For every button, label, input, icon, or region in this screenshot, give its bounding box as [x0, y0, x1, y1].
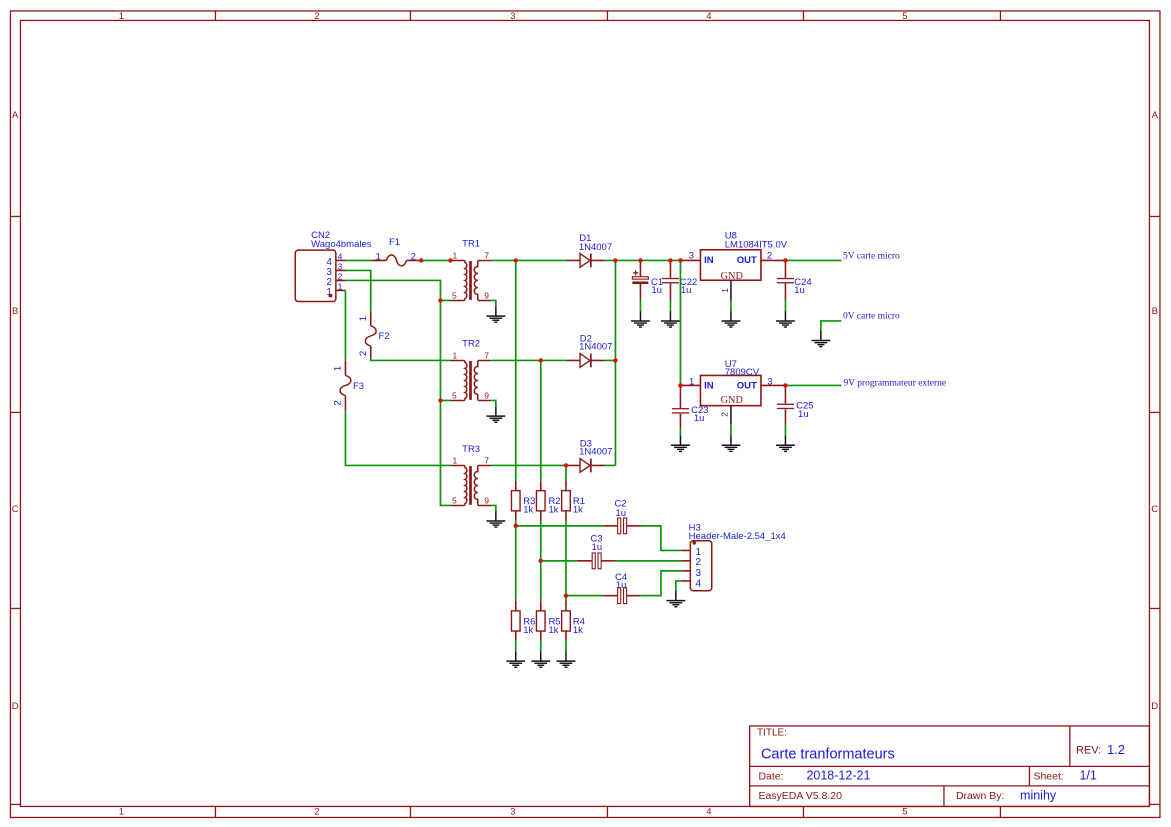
svg-text:2: 2 [719, 412, 729, 417]
svg-text:1: 1 [358, 316, 369, 321]
H3 pin 3 [681, 570, 690, 572]
svg-text:1: 1 [338, 281, 343, 291]
wire CN2.2 down to TR3.5 [345, 280, 450, 505]
svg-text:2: 2 [767, 250, 772, 261]
svg-text:2: 2 [314, 11, 319, 22]
svg-text:Sheet:: Sheet: [1033, 770, 1063, 782]
H3 pin 2 [681, 560, 690, 562]
wire D2 to bus [605, 359, 615, 361]
ground under C24 [776, 311, 795, 327]
svg-text:F1: F1 [389, 237, 400, 248]
wire D3 to bus [605, 464, 615, 466]
svg-text:IN: IN [704, 255, 714, 266]
wire CN2.3 to F2 [345, 270, 370, 311]
ground under R6 [506, 651, 525, 667]
wire TR1.7 to D1 [491, 259, 567, 261]
wire C3 row left [541, 560, 577, 562]
resistor R1 [562, 481, 585, 521]
CN2 pin 4 [336, 259, 346, 261]
junction D2 cathode [613, 358, 617, 362]
ground of 0V flag [811, 331, 830, 347]
svg-text:D: D [1151, 701, 1158, 712]
ground under C22 [661, 311, 680, 327]
svg-text:1u: 1u [592, 542, 603, 553]
diode D3 [566, 438, 612, 472]
svg-text:1N4007: 1N4007 [579, 447, 612, 458]
svg-text:C: C [12, 504, 19, 515]
resistor R4 [562, 601, 585, 641]
junction R1 col top [564, 463, 568, 467]
svg-text:TR2: TR2 [462, 338, 480, 349]
ground under TR3 pin9 [486, 511, 505, 527]
wires [345, 260, 841, 651]
svg-text:1k: 1k [573, 625, 583, 636]
junction F1 out [419, 258, 423, 262]
wire F1 to TR1.1 [421, 259, 450, 261]
capacitor C3 [577, 533, 616, 568]
junction U7 in [678, 383, 682, 387]
diode D2 [566, 333, 612, 367]
diode D1 [566, 233, 612, 268]
svg-text:OUT: OUT [737, 255, 757, 266]
svg-text:2: 2 [695, 557, 701, 568]
svg-text:1: 1 [375, 252, 380, 263]
svg-text:4: 4 [338, 251, 343, 261]
svg-text:B: B [12, 306, 18, 317]
junction U8 in [678, 258, 682, 262]
resistor R6 [511, 601, 535, 641]
svg-text:5: 5 [902, 807, 907, 818]
svg-text:minihy: minihy [1020, 789, 1057, 803]
capacitor C2 [603, 498, 641, 533]
H3 pin 4 [681, 580, 690, 582]
wire H3.4 to ground [676, 581, 681, 591]
svg-text:IN: IN [704, 380, 714, 391]
wire C3 to H3.2 [615, 560, 681, 562]
U7 pin 1 [680, 384, 700, 386]
CN2 pin 3 [336, 269, 346, 271]
svg-text:1/1: 1/1 [1079, 769, 1096, 783]
svg-text:9V programmateur externe: 9V programmateur externe [843, 379, 946, 389]
svg-text:1: 1 [720, 288, 730, 293]
wire U8 gnd pin to ground [730, 300, 732, 311]
header H3 [681, 522, 786, 590]
wire D1 to U8.3 [605, 259, 680, 261]
wire C4 row left [566, 595, 603, 597]
wire 0V flag [821, 321, 842, 331]
ground under C23 [671, 435, 690, 451]
svg-text:3: 3 [689, 250, 694, 261]
wire col R1 top [565, 465, 567, 480]
svg-text:2: 2 [333, 400, 344, 405]
svg-text:2: 2 [314, 807, 319, 818]
capacitor C4 [603, 572, 641, 604]
transformer TR2 [450, 338, 491, 400]
svg-text:Wago4bmales: Wago4bmales [311, 239, 372, 250]
U7 pin 3 [761, 384, 786, 386]
wire TR2.9 to ground [491, 400, 496, 406]
junction U8 out [783, 258, 787, 262]
wire R5 to ground [540, 641, 542, 652]
wire C2 row left [516, 525, 604, 527]
capacitor C24 [777, 260, 812, 299]
wire R4 to ground [565, 641, 567, 652]
svg-text:2018-12-21: 2018-12-21 [806, 769, 870, 783]
ground under U7 [722, 435, 741, 451]
svg-text:A: A [12, 110, 19, 121]
svg-text:2: 2 [411, 252, 416, 263]
wire TR3.7 to D3 [491, 464, 567, 466]
regulator U8 [680, 230, 787, 300]
junction C4 row [564, 593, 568, 597]
svg-text:1u: 1u [615, 508, 626, 519]
ground under H3 pin4 [666, 591, 685, 607]
wire C2 to H3.1 [641, 526, 681, 551]
title block [750, 726, 1150, 807]
svg-text:1: 1 [119, 807, 124, 818]
svg-text:Drawn By:: Drawn By: [956, 790, 1004, 802]
svg-text:3: 3 [510, 807, 515, 818]
svg-text:1: 1 [333, 366, 344, 371]
wire TR2.7 to D2 [491, 359, 567, 361]
wire U8.3 down to U7.1 [679, 260, 681, 385]
capacitor C22 [662, 260, 697, 299]
capacitor C23 [672, 385, 709, 428]
svg-text:1k: 1k [573, 504, 583, 515]
svg-text:0V carte micro: 0V carte micro [843, 312, 900, 322]
U8 pin 3 [680, 259, 700, 261]
wire tap TR1.5 [440, 299, 450, 301]
svg-text:B: B [1152, 306, 1158, 317]
wire CN2.1 down to F3 [344, 290, 346, 360]
wire col R2-R5 [540, 521, 542, 601]
wire col R1-R4 [565, 521, 567, 601]
svg-text:Carte tranformateurs: Carte tranformateurs [761, 746, 895, 762]
wire col R3 top [515, 260, 517, 480]
svg-text:7809CV: 7809CV [725, 367, 760, 378]
svg-text:1k: 1k [548, 625, 558, 636]
svg-text:5V carte micro: 5V carte micro [843, 252, 900, 262]
ground under TR1 pin9 [486, 306, 505, 322]
connector CN2 [295, 230, 372, 302]
wire cathode bus vertical [614, 260, 616, 465]
wire F2 to TR2.1 [371, 358, 451, 360]
svg-text:1u: 1u [694, 413, 705, 424]
svg-text:TR3: TR3 [462, 444, 480, 455]
svg-text:2: 2 [358, 351, 369, 356]
wire C24 to ground [784, 299, 786, 311]
wire C23 to ground [679, 428, 681, 435]
junction TR1.5 [438, 298, 442, 302]
svg-text:1N4007: 1N4007 [579, 242, 612, 253]
junction C22 top [668, 258, 672, 262]
resistor R2 [536, 481, 560, 521]
ground under R5 [531, 651, 550, 667]
svg-text:1u: 1u [651, 285, 662, 296]
wire TR3.9 to ground [491, 505, 496, 511]
svg-text:REV:: REV: [1076, 745, 1101, 757]
ground under C25 [776, 435, 795, 451]
svg-text:GND: GND [721, 271, 744, 282]
wire C22 to ground [669, 299, 671, 311]
svg-text:F3: F3 [353, 381, 364, 392]
wire C4 to H3.3 [641, 571, 682, 596]
svg-text:1: 1 [689, 376, 694, 387]
svg-text:A: A [1152, 110, 1159, 121]
junction TR1.1 [448, 258, 452, 262]
wire U7 gnd pin to ground [730, 425, 732, 436]
svg-text:F2: F2 [378, 331, 389, 342]
resistor R5 [536, 601, 560, 641]
transformer TR1 [450, 238, 491, 300]
svg-text:1k: 1k [523, 625, 533, 636]
wire col R2 top [540, 360, 542, 480]
svg-text:D: D [12, 701, 19, 712]
junction C2 row [514, 524, 518, 528]
svg-text:1.2: 1.2 [1107, 742, 1125, 757]
CN2 pin 2 [336, 279, 346, 281]
wire TR1.9 to ground [491, 300, 496, 306]
svg-text:4: 4 [695, 578, 701, 589]
wire col R3-R6 [515, 521, 517, 601]
svg-text:1u: 1u [681, 285, 692, 296]
svg-text:1: 1 [119, 11, 124, 22]
fuse F1 [371, 237, 421, 266]
junction TR2.5 [438, 398, 442, 402]
regulator U7 [680, 359, 785, 425]
svg-text:TR1: TR1 [462, 238, 480, 249]
svg-text:Date:: Date: [758, 770, 783, 782]
capacitor C1 [632, 260, 663, 299]
wire U7.3 to 9V label [785, 384, 841, 386]
ground under R4 [557, 651, 576, 667]
U8 pin 2 [761, 259, 786, 261]
svg-text:TITLE:: TITLE: [757, 728, 787, 739]
junction D1 cathode [613, 258, 617, 262]
U7 pin 2 GND [730, 406, 732, 425]
wire C25 to ground [784, 425, 786, 436]
svg-text:EasyEDA V5.8.20: EasyEDA V5.8.20 [758, 790, 842, 802]
wire C1 to ground [639, 299, 641, 311]
svg-text:1u: 1u [798, 409, 809, 420]
transformer TR3 [450, 444, 491, 506]
H3 pin 1 [681, 549, 690, 551]
svg-text:1k: 1k [523, 504, 533, 515]
junction C1 top [638, 258, 642, 262]
wire CN2.4 to F1 [345, 259, 371, 261]
svg-text:3: 3 [510, 11, 515, 22]
svg-text:GND: GND [721, 395, 744, 406]
wire tap TR2.5 [440, 399, 450, 401]
wire R6 to ground [515, 641, 517, 652]
svg-text:OUT: OUT [737, 380, 757, 391]
ground under TR2 pin9 [486, 406, 505, 422]
svg-text:1k: 1k [548, 504, 558, 515]
CN2 pin 1 [336, 289, 346, 291]
junction dots [419, 258, 788, 598]
svg-text:1u: 1u [794, 285, 805, 296]
fuse F3 [333, 361, 364, 411]
capacitor C25 [777, 385, 814, 424]
ground under U8 [722, 311, 741, 327]
junction U7 out [783, 383, 787, 387]
wire F3 to TR3.1 [345, 410, 450, 465]
fuse F2 [358, 311, 390, 358]
U8 pin 1 GND [730, 280, 732, 300]
svg-text:2: 2 [338, 271, 343, 281]
svg-text:4: 4 [706, 807, 711, 818]
junction R2 col top [539, 358, 543, 362]
svg-text:3: 3 [767, 376, 772, 387]
junction C3 row [539, 559, 543, 563]
junction R3 col top [514, 258, 518, 262]
svg-text:C: C [1151, 504, 1158, 515]
svg-text:3: 3 [338, 261, 343, 271]
ground under C1 [631, 311, 650, 327]
svg-text:5: 5 [902, 11, 907, 22]
resistor R3 [511, 481, 535, 521]
svg-text:1N4007: 1N4007 [579, 342, 612, 353]
wire U8.2 to 5V label [785, 259, 841, 261]
svg-text:4: 4 [706, 11, 711, 22]
